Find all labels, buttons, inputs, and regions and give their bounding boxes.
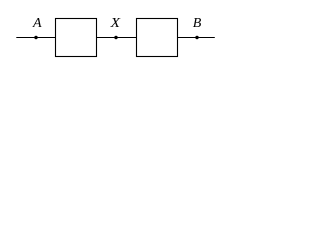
wire input segment A: [16, 37, 55, 39]
node X: [114, 36, 117, 39]
node A: [34, 36, 37, 39]
block U1: [56, 19, 97, 57]
node B: [195, 36, 198, 39]
svg-text:A: A: [32, 16, 42, 31]
svg-text:X: X: [110, 16, 121, 31]
block U2: [137, 19, 178, 57]
wire output segment B: [177, 37, 215, 39]
wire middle segment X: [96, 37, 137, 39]
svg-text:B: B: [193, 16, 202, 31]
